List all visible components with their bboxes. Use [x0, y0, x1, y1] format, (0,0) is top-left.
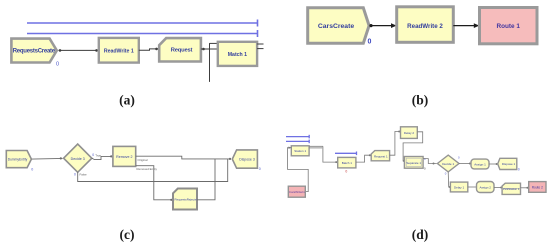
- svg-text:Decide 3: Decide 3: [71, 157, 85, 161]
- wire False branch: [78, 159, 228, 182]
- wire Separate1 to Decide1: [423, 159, 436, 165]
- wire RequestsCreate to ReadWrite1: [59, 49, 98, 52]
- svg-text:0: 0: [424, 166, 426, 170]
- wire Assign2 to PickStation: [494, 187, 502, 189]
- block Match 1: [218, 42, 257, 66]
- svg-text:DummyEntity: DummyEntity: [8, 158, 28, 162]
- wire Assign1 to Dispose1: [489, 163, 498, 165]
- svg-text:PickStation 1: PickStation 1: [503, 187, 520, 191]
- svg-text:Station 1: Station 1: [294, 149, 306, 153]
- wire CarsCreate to ReadWrite2: [369, 23, 396, 28]
- svg-text:Request: Request: [171, 48, 193, 54]
- block Request 1: [371, 151, 389, 161]
- wire True branch to Remove2: [92, 155, 112, 159]
- wire Decide1 down to Delay3: [448, 172, 450, 188]
- svg-text:Removed Entity: Removed Entity: [137, 167, 158, 171]
- block ReadWrite 1: [99, 38, 139, 63]
- svg-text:0: 0: [92, 153, 94, 157]
- wire PickStation to Route2: [521, 187, 529, 189]
- svg-text:Delay 1: Delay 1: [454, 186, 465, 190]
- svg-text:Assign 2: Assign 2: [479, 186, 491, 190]
- block RequestsRejected: [173, 189, 197, 210]
- wire ReadWrite2 to Route1: [453, 23, 479, 28]
- label True: [92, 153, 101, 158]
- block Assign 2: [477, 182, 495, 193]
- svg-text:ReadWrite 2: ReadWrite 2: [407, 23, 443, 30]
- svg-text:0: 0: [368, 39, 372, 46]
- blue rail d3: [335, 152, 357, 156]
- svg-text:(b): (b): [412, 93, 429, 108]
- block Assign 1: [471, 159, 489, 169]
- wire Original branch to Dispose3: [136, 156, 231, 160]
- block Route 1: [480, 8, 538, 44]
- svg-text:Route 1: Route 1: [496, 23, 520, 30]
- wire DummyEntity to Decide3: [32, 157, 63, 159]
- blue rail 2: [27, 30, 258, 37]
- wire Request to Match1: [201, 48, 218, 51]
- block Delay 2: [401, 127, 418, 139]
- wire RemovedEntity branch down to RequestsRejected: [136, 166, 173, 201]
- wire ReadWrite1 to Request: [139, 48, 158, 51]
- svg-text:Original: Original: [138, 158, 148, 162]
- svg-text:Request 1: Request 1: [374, 154, 388, 158]
- blue rail d2: [286, 140, 309, 144]
- stub wires out of Match1 right: [257, 44, 263, 49]
- block Remove 2: [113, 146, 136, 166]
- svg-text:Route 2: Route 2: [532, 186, 543, 190]
- block Dispose 1: [498, 158, 517, 169]
- svg-text:0: 0: [74, 172, 76, 176]
- svg-text:(a): (a): [119, 93, 135, 108]
- decide1 marks: [445, 156, 460, 176]
- svg-text:(c): (c): [120, 227, 135, 242]
- block PickStation 1: [502, 183, 520, 194]
- blue rail d1: [286, 135, 309, 139]
- svg-text:Dispose 1: Dispose 1: [502, 162, 516, 166]
- svg-text:(d): (d): [412, 227, 429, 242]
- block Station 1: [291, 146, 309, 156]
- svg-text:CarsWriteIn: CarsWriteIn: [289, 190, 305, 194]
- svg-text:0: 0: [445, 171, 447, 175]
- block StationWrite (pink): [288, 186, 305, 197]
- decision Decide 1: [437, 155, 459, 172]
- svg-text:RequestsRejecte: RequestsRejecte: [174, 197, 196, 201]
- block Route 2 (pink): [529, 182, 546, 193]
- svg-text:Separate 1: Separate 1: [406, 161, 421, 165]
- block Dispose 3: [232, 150, 257, 168]
- svg-text:Assign 1: Assign 1: [474, 163, 486, 167]
- block Separate 1: [404, 157, 423, 169]
- svg-text:RequestsCreate: RequestsCreate: [13, 49, 56, 55]
- vertical wire at Match1 left: [209, 43, 211, 82]
- svg-text:Delay 2: Delay 2: [404, 131, 415, 135]
- decision Decide 3: [64, 144, 92, 172]
- svg-text:Batch 1: Batch 1: [342, 161, 353, 165]
- label False: [74, 172, 87, 176]
- block Delay 3: [450, 182, 467, 192]
- block ReadWrite 2: [397, 7, 454, 43]
- svg-text:Dispose 3: Dispose 3: [239, 158, 255, 162]
- wire Station1 to Batch1 (double): [309, 146, 337, 163]
- svg-text:Decide 1: Decide 1: [442, 162, 454, 166]
- wire Delay3 to Assign2: [468, 186, 477, 188]
- wire Batch1 to Request1: [356, 154, 371, 162]
- svg-text:0: 0: [345, 169, 347, 173]
- svg-text:True: True: [95, 154, 101, 158]
- block Batch 1: [338, 157, 356, 168]
- svg-text:0: 0: [518, 168, 520, 172]
- svg-text:Match 1: Match 1: [228, 52, 247, 58]
- wire loop Delay2 to Separate1: [403, 132, 423, 162]
- wire Decide1 to Assign1: [459, 163, 471, 165]
- blue rail 1: [27, 20, 258, 27]
- svg-text:False: False: [80, 173, 87, 177]
- block DummyEntity: [6, 151, 31, 168]
- wire Request1 up to Delay2: [390, 131, 401, 156]
- svg-text:0: 0: [259, 167, 261, 171]
- block Request: [159, 38, 201, 61]
- separate exit marks: [424, 157, 426, 170]
- wire RequestsRejected output up to Dispose3 line: [197, 159, 215, 200]
- svg-text:0: 0: [56, 62, 59, 68]
- stub wire into Match1 upper left: [210, 42, 218, 44]
- block RequestsCreate: [11, 39, 56, 63]
- svg-text:CarsCreate: CarsCreate: [318, 23, 354, 30]
- svg-text:0: 0: [31, 167, 33, 171]
- block CarsCreate: [308, 8, 369, 44]
- wire loop Station1 to StationWrite: [288, 147, 309, 192]
- svg-text:ReadWrite 1: ReadWrite 1: [104, 48, 134, 54]
- svg-text:0: 0: [458, 156, 460, 160]
- svg-text:Remove 2: Remove 2: [116, 155, 132, 159]
